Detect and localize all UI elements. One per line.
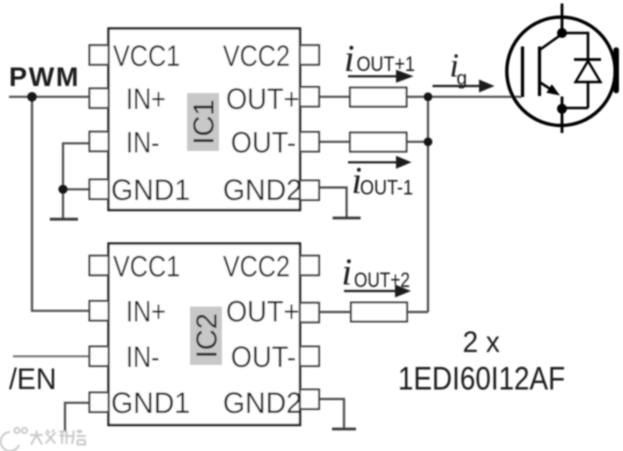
svg-text:2 x: 2 x	[463, 326, 501, 359]
svg-text:IC1: IC1	[189, 99, 221, 144]
svg-text:VCC1: VCC1	[113, 39, 180, 73]
svg-text:GND1: GND1	[111, 174, 190, 207]
svg-text:i: i	[342, 252, 353, 294]
svg-text:1EDI60I12AF: 1EDI60I12AF	[398, 362, 565, 397]
svg-text:OUT-: OUT-	[231, 126, 296, 159]
svg-text:OUT+: OUT+	[226, 295, 300, 328]
svg-text:VCC2: VCC2	[223, 249, 290, 283]
svg-text:VCC1: VCC1	[113, 249, 180, 283]
svg-text:OUT-1: OUT-1	[360, 176, 413, 200]
svg-text:OUT+: OUT+	[226, 83, 300, 116]
svg-text:i: i	[344, 38, 355, 80]
svg-text:/EN: /EN	[9, 363, 56, 396]
svg-text:IN-: IN-	[126, 125, 160, 159]
svg-text:OUT+1: OUT+1	[357, 53, 416, 77]
svg-text:GND2: GND2	[223, 174, 302, 207]
svg-text:OUT+2: OUT+2	[354, 270, 410, 293]
svg-text:g: g	[457, 69, 468, 90]
svg-text:GND1: GND1	[111, 387, 190, 420]
svg-text:IN+: IN+	[126, 82, 166, 116]
svg-text:IN+: IN+	[126, 295, 166, 329]
svg-text:OUT-: OUT-	[231, 341, 296, 374]
svg-text:IC2: IC2	[192, 313, 224, 358]
svg-text:IN-: IN-	[126, 340, 160, 374]
svg-text:PWM: PWM	[9, 62, 80, 92]
svg-text:VCC2: VCC2	[223, 39, 290, 73]
svg-text:GND2: GND2	[223, 387, 302, 420]
